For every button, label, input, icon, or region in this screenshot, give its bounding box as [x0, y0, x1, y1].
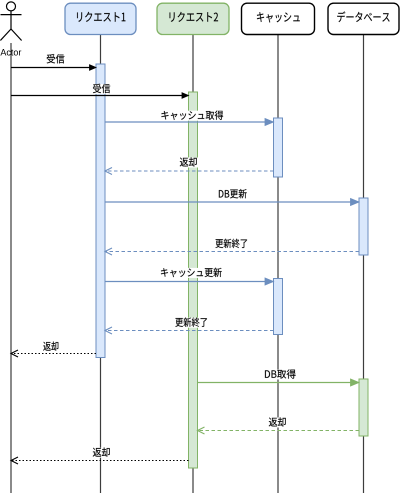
label 返却 1	[178, 158, 199, 168]
return 更新終了 (データベース→リクエスト1)	[105, 248, 359, 255]
return 返却 (リクエスト2→Actor)	[11, 457, 189, 464]
label キャッシュ取得	[159, 111, 225, 121]
participant リクエスト1	[65, 3, 136, 34]
activation bar キャッシュ 1	[274, 118, 283, 177]
message キャッシュ取得 (リクエスト1→キャッシュ)	[105, 119, 274, 126]
activation bar リクエスト1	[96, 64, 105, 358]
return 返却 (キャッシュ→リクエスト1)	[105, 168, 274, 175]
label キャッシュ更新	[159, 268, 224, 278]
return 返却 (リクエスト1→Actor)	[11, 350, 96, 357]
label 更新終了 1	[214, 239, 250, 249]
activation bar キャッシュ 2	[274, 279, 283, 335]
svg-text:Actor: Actor	[0, 48, 21, 58]
participant キャッシュ	[242, 3, 315, 34]
message DB取得 (リクエスト2→データベース)	[198, 379, 360, 386]
return 返却 (データベース→リクエスト2)	[198, 427, 360, 434]
message キャッシュ更新 (リクエスト1→キャッシュ)	[105, 278, 274, 285]
actor Actor	[0, 2, 21, 41]
participant リクエスト2	[157, 3, 229, 34]
lifeline キャッシュ	[277, 35, 279, 493]
label 受信 1	[45, 54, 67, 64]
label 返却 4	[91, 448, 112, 458]
lifeline Actor	[10, 43, 12, 493]
activation bar データベース 1	[359, 198, 368, 255]
label 返却 3	[267, 418, 288, 428]
label 返却 2	[42, 342, 61, 352]
lifeline リクエスト1	[100, 35, 102, 493]
return 更新終了 (キャッシュ→リクエスト1)	[105, 327, 274, 334]
lifeline リクエスト2	[192, 35, 194, 493]
label 受信 2	[91, 84, 112, 94]
participant データベース	[328, 3, 399, 34]
activation bar データベース 2	[359, 379, 368, 436]
lifeline データベース	[363, 35, 365, 493]
label DB更新	[217, 189, 249, 199]
label 更新終了 2	[174, 318, 210, 328]
message DB更新 (リクエスト1→データベース)	[105, 199, 359, 206]
message 受信 (Actor→リクエスト2)	[11, 93, 189, 99]
label DB取得	[263, 370, 298, 380]
message 受信 (Actor→リクエスト1)	[11, 65, 96, 71]
activation bar リクエスト2	[189, 92, 198, 468]
